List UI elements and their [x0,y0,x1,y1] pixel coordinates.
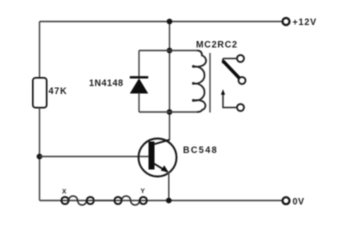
node bottom rail junction [166,198,172,204]
resistor R1 47K [33,78,47,108]
svg-text:0V: 0V [293,196,305,206]
relay contact top circle [237,55,244,62]
relay core line [209,53,211,113]
wire between sensors [94,200,115,202]
svg-text:BC548: BC548 [183,145,218,155]
sensor terminal X circle [61,197,68,204]
wire bottom rail 0V [40,200,283,202]
svg-text:MC2RC2: MC2RC2 [196,40,238,50]
wire contact bottom lead [223,93,237,107]
wire loop bottom horizontal [139,111,197,113]
svg-text:X: X [62,188,67,195]
wire left vertical lower [39,108,41,201]
sensor circle Y left [114,197,121,204]
relay contact middle circle [239,77,246,84]
terminal +12V [283,18,290,25]
sensor circle X right [87,197,94,204]
sensor coil X squiggle [69,196,87,205]
wire main vertical upper [169,22,171,141]
transistor Q1 BC548 [139,139,177,177]
wire loop top horizontal [139,50,197,52]
sensor coil Y squiggle [122,196,140,205]
wire left vertical upper [39,22,41,79]
relay armature pivot [222,59,224,63]
svg-text:Y: Y [141,188,146,195]
node base junction [37,154,43,160]
node top rail junction [167,19,173,25]
node loop top junction [167,48,173,54]
wire emitter to bottom rail [168,172,170,201]
sensor terminal Y circle [140,197,147,204]
relay actuation arrow [221,89,225,95]
node loop bottom junction [167,109,173,115]
relay armature bar [224,62,240,79]
svg-text:+12V: +12V [293,17,317,27]
relay contact bottom circle [237,104,244,111]
wire base [40,156,149,158]
wire contact top lead [223,58,237,60]
svg-text:1N4148: 1N4148 [89,78,124,88]
diode D1 1N4148 [130,51,148,113]
terminal 0V [283,197,290,204]
wire top rail +12V [40,21,283,23]
svg-text:47K: 47K [49,86,68,96]
